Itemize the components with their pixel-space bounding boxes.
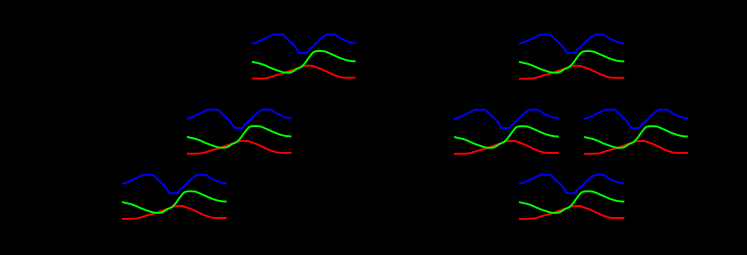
plot A (top-center): red curve <box>252 66 356 79</box>
plot B (top-right): blue curve <box>519 35 624 54</box>
plot C (middle-left): blue curve <box>187 110 292 129</box>
plot C (middle-left): red curve <box>187 141 292 154</box>
plot C (middle-left) <box>187 110 292 154</box>
plot B (top-right): red curve <box>519 66 624 79</box>
plot E (middle-far-right): green curve <box>584 126 688 148</box>
plot B (top-right): green curve <box>519 51 624 73</box>
plot F (bottom-left): red curve <box>122 206 227 219</box>
plot G (bottom-right): red curve <box>519 206 624 219</box>
plot D (middle-center-right): blue curve <box>454 110 559 129</box>
plot A (top-center) <box>252 34 356 78</box>
plot G (bottom-right) <box>519 175 624 219</box>
plot F (bottom-left) <box>122 175 227 219</box>
plot D (middle-center-right): green curve <box>454 126 559 148</box>
plot F (bottom-left): blue curve <box>122 175 227 194</box>
plot A (top-center): green curve <box>252 51 356 73</box>
plot A (top-center): blue curve <box>252 34 356 53</box>
plot G (bottom-right): blue curve <box>519 175 624 194</box>
plot E (middle-far-right) <box>584 110 688 154</box>
plot E (middle-far-right): red curve <box>584 141 688 154</box>
plot D (middle-center-right) <box>454 110 559 154</box>
plot D (middle-center-right): red curve <box>454 141 559 154</box>
plot C (middle-left): green curve <box>187 126 292 148</box>
plot B (top-right) <box>519 35 624 79</box>
plot G (bottom-right): green curve <box>519 191 624 213</box>
plot E (middle-far-right): blue curve <box>584 110 688 129</box>
plot F (bottom-left): green curve <box>122 191 227 213</box>
